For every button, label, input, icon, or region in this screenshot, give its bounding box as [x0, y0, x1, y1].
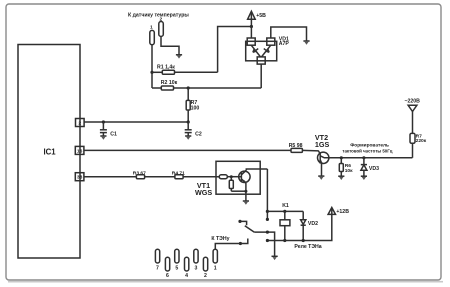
- resistor R4: [175, 175, 219, 179]
- transistor VT2: [318, 151, 329, 176]
- connector pin 4: [185, 257, 189, 279]
- svg-text:6: 6: [166, 273, 169, 279]
- svg-text:16: 16: [77, 148, 83, 154]
- wire IC pin16 net: [84, 149, 291, 151]
- resistor R6: [339, 158, 343, 176]
- VT1 internal resistor vertical: [229, 177, 246, 192]
- svg-text:+12В: +12В: [336, 209, 349, 215]
- node R2/R7/VD1: [187, 86, 190, 89]
- VD1 internal diode right: [261, 45, 270, 57]
- VD1 left terminal: [247, 27, 255, 46]
- relay contact arm: [245, 226, 254, 232]
- svg-text:~220В: ~220В: [405, 99, 421, 105]
- resistor R2: [152, 86, 261, 90]
- svg-text:WGS: WGS: [195, 188, 212, 197]
- wire collector drop: [266, 169, 268, 219]
- svg-text:5: 5: [175, 265, 178, 271]
- diode pair VD1 outer box: [246, 41, 277, 61]
- ~220V source symbol: [405, 99, 421, 134]
- connector pin 7: [155, 249, 159, 271]
- node VD3: [362, 156, 365, 159]
- svg-text:38: 38: [77, 175, 83, 181]
- svg-text:2: 2: [78, 120, 81, 126]
- svg-text:+5В: +5В: [256, 13, 266, 19]
- relay contact bottom terminal: [239, 239, 248, 246]
- VT1 transistor: [239, 170, 250, 183]
- wire contact common: [254, 232, 274, 256]
- capacitor C2: [185, 122, 192, 136]
- node contact common: [266, 231, 269, 234]
- capacitor C1: [100, 122, 107, 136]
- node collector stub end: [266, 218, 269, 221]
- connector pin 2: [203, 257, 207, 279]
- resistor R3: [136, 175, 175, 179]
- wire IC pin2 net: [84, 121, 188, 123]
- ground (C2): [185, 136, 191, 140]
- pin 16 box: [75, 146, 84, 154]
- connector pin 6: [165, 257, 169, 279]
- node bottom wire start: [266, 239, 269, 242]
- node +5V junction: [250, 25, 253, 28]
- relay coil K1: [280, 211, 290, 240]
- VD1 right terminal: [267, 27, 307, 45]
- ground (VD1 right): [303, 41, 309, 45]
- wire K1 top net: [267, 210, 303, 212]
- ground (contact): [272, 256, 278, 260]
- svg-text:VD2: VD2: [308, 221, 318, 227]
- wire pin2 to ground: [161, 36, 179, 54]
- svg-text:4: 4: [185, 273, 188, 279]
- VT1 input resistor: [219, 175, 241, 179]
- svg-text:C2: C2: [195, 131, 202, 137]
- resistor R1: [152, 70, 218, 74]
- wire pin1 down: [151, 45, 153, 88]
- resistor R5: [291, 148, 319, 152]
- svg-text:1: 1: [214, 265, 217, 271]
- svg-text:3: 3: [194, 265, 197, 271]
- VT1 collector wire: [246, 169, 267, 170]
- node R1 junction: [150, 71, 153, 74]
- resistor R7: [186, 88, 190, 122]
- svg-text:Реле ТЭНа: Реле ТЭНа: [294, 244, 321, 250]
- ground (VD3): [361, 176, 367, 180]
- svg-text:220к: 220к: [416, 138, 427, 144]
- node collector tee: [266, 210, 269, 213]
- connector pin 1: [213, 249, 217, 271]
- svg-text:10к: 10к: [345, 168, 353, 174]
- node VT1 emitter junction: [244, 190, 247, 193]
- diode VD2: [301, 211, 306, 240]
- svg-text:VD3: VD3: [369, 166, 379, 172]
- pin 38 box: [75, 173, 84, 181]
- connector pin 5: [175, 249, 179, 271]
- ground (C1): [100, 136, 106, 140]
- svg-text:А7Р: А7Р: [279, 41, 290, 47]
- node C1: [102, 120, 105, 123]
- VD1 internal diode left: [251, 45, 260, 57]
- ground (VT2 emitter): [318, 176, 324, 180]
- node K1 coil bottom: [283, 239, 286, 242]
- svg-text:К ТЭНу: К ТЭНу: [211, 236, 229, 242]
- wire VT2 collector 50Hz net: [329, 157, 413, 159]
- connector pin 2 (sensor): [159, 17, 164, 37]
- wire to heater pin 1: [215, 244, 240, 250]
- node VT1 base junction: [230, 175, 233, 178]
- ground (VT1): [243, 196, 249, 205]
- wire K1 bottom net: [267, 214, 331, 240]
- +12V supply symbol: [328, 208, 349, 216]
- VD1 bottom terminal: [257, 57, 265, 88]
- node VD2 bottom: [302, 239, 305, 242]
- VT1 emitter wire: [245, 183, 247, 196]
- transistor module VT1 box: [216, 161, 260, 194]
- svg-text:1GS: 1GS: [315, 140, 330, 149]
- connector pin 3: [194, 249, 198, 271]
- svg-text:IC1: IC1: [44, 148, 57, 157]
- svg-text:K1: K1: [282, 203, 289, 209]
- +5V supply symbol: [248, 11, 267, 26]
- svg-text:Формирователь: Формирователь: [350, 143, 389, 149]
- svg-text:100: 100: [191, 105, 200, 111]
- svg-text:R2 10к: R2 10к: [161, 80, 178, 86]
- node K1 coil top: [283, 210, 286, 213]
- node C2/R7: [187, 120, 190, 123]
- wire R1 to +5V rail: [218, 27, 252, 73]
- resistor R7 220k: [410, 133, 415, 157]
- frame shadow: [8, 281, 443, 283]
- svg-text:2: 2: [204, 273, 207, 279]
- node R6: [340, 156, 343, 159]
- svg-text:R1 1,4к: R1 1,4к: [157, 64, 175, 70]
- ground (R6): [338, 176, 344, 180]
- ground (sensor pin2): [176, 55, 182, 59]
- pin 2 box: [76, 119, 85, 127]
- IC U1 body: [18, 45, 80, 259]
- wire IC pin38 net: [84, 176, 136, 178]
- svg-text:C1: C1: [110, 131, 117, 137]
- svg-text:7: 7: [156, 265, 159, 271]
- relay contact top terminal: [238, 220, 246, 225]
- svg-text:тактовой частоты 50Гц: тактовой частоты 50Гц: [342, 149, 392, 154]
- connector pin 1 (sensor): [150, 25, 155, 45]
- zener diode VD3: [361, 158, 367, 176]
